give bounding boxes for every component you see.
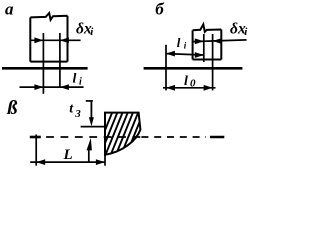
- up arrow: [87, 138, 92, 151]
- svg-text:l: l: [184, 74, 188, 89]
- svg-text:3: 3: [74, 108, 81, 120]
- top bar: [86, 100, 93, 102]
- lower arrow of t3: [88, 148, 90, 162]
- svg-text:l: l: [177, 35, 181, 50]
- left extension line: [35, 135, 37, 166]
- down arrow: [89, 117, 94, 126]
- svg-text:а: а: [5, 0, 14, 18]
- arrow right at axis1: [34, 84, 43, 90]
- dx dimension line: [193, 40, 247, 42]
- arrow right at axis2: [204, 85, 213, 91]
- arrow right at axis1: [195, 52, 204, 58]
- svg-text:L: L: [63, 147, 73, 163]
- upper dim line of t3: [90, 101, 92, 119]
- svg-text:l: l: [73, 72, 77, 87]
- l_i dimension line: [20, 86, 84, 88]
- l_0 dimension line: [163, 87, 216, 89]
- underside line: [81, 126, 105, 128]
- svg-text:i: i: [79, 77, 82, 88]
- arrow right at axis1: [195, 38, 204, 44]
- element outline with break at top: [193, 24, 222, 59]
- base line: [2, 67, 88, 70]
- arrow left at axis2: [60, 37, 69, 43]
- arrow left at ext: [36, 159, 45, 165]
- svg-text:ß: ß: [6, 97, 17, 119]
- axis dash line right thick end: [210, 136, 224, 139]
- arrow right at shape edge: [96, 159, 105, 165]
- axis line 1: [42, 33, 44, 94]
- axis line 2: [59, 33, 61, 87]
- arrow left at ext line: [166, 51, 175, 57]
- hatched support (corbel) shape: [105, 113, 140, 155]
- arrow right at axis1: [34, 37, 43, 43]
- axis line 1: [203, 34, 205, 62]
- arrow left at ext: [166, 85, 175, 91]
- element outline (column) with break at top: [30, 13, 67, 62]
- axis dashed line: [46, 136, 140, 138]
- base line: [144, 67, 243, 70]
- right extension line (shape edge extended): [104, 155, 106, 166]
- arrow left at axis2: [60, 84, 69, 90]
- l_i dimension line: [166, 54, 204, 55]
- svg-text:0: 0: [190, 77, 196, 89]
- axis line 2: [212, 34, 214, 90]
- L dimension line: [30, 161, 105, 163]
- arrow left at axis2: [213, 38, 222, 44]
- axis dash line left thick start: [30, 136, 41, 139]
- dx dimension line: [30, 39, 80, 41]
- left extension line: [165, 45, 167, 91]
